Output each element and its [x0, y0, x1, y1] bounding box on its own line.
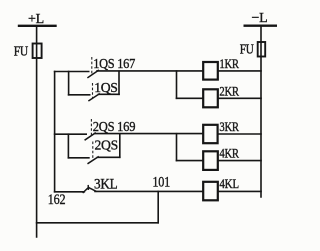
coil 4KL: [203, 182, 218, 201]
coil 2KR: [203, 89, 218, 107]
wire row3 right segment to coil 3KR: [95, 133, 204, 135]
fuse FU (right): [258, 42, 266, 57]
wire drop to coil 4KR: [176, 134, 178, 161]
wire 3KR to right rail: [218, 133, 261, 135]
fuse FU (left): [33, 44, 42, 59]
wire row1 right segment to coil 1KR: [97, 70, 203, 72]
svg-text:2QS: 2QS: [95, 138, 118, 153]
switch 1QS blade (contact 167 row): [88, 70, 98, 77]
wire 4KR to right rail: [218, 160, 261, 162]
wire row4 right segment: [98, 156, 120, 158]
wire row3 left segment: [55, 133, 87, 135]
left rail wire (from +L bar down): [36, 26, 38, 237]
svg-text:4KR: 4KR: [219, 145, 239, 160]
svg-text:101: 101: [152, 175, 170, 191]
wire row5 right segment to coil 4KL (node 101): [95, 190, 203, 192]
svg-text:1QS 167: 1QS 167: [93, 57, 135, 72]
svg-text:4KL: 4KL: [219, 176, 239, 191]
svg-text:FU: FU: [14, 43, 29, 58]
wire 2KR to right rail: [218, 97, 261, 99]
coil 4KR: [203, 151, 218, 170]
svg-text:FU: FU: [240, 42, 254, 57]
switch 1QS blade (lower branch): [89, 94, 99, 101]
svg-text:2KR: 2KR: [219, 84, 239, 99]
svg-text:3KR: 3KR: [219, 119, 239, 134]
wire junction drop to 2QS lower branch: [67, 134, 69, 158]
wire bottom return to left rail: [37, 222, 159, 224]
wire rejoin vertical of 1QS pair: [118, 71, 120, 94]
linkage dashed line 1QS row1: [91, 57, 93, 75]
-L supply bar: [245, 25, 277, 27]
wire junction drop to 1QS lower branch: [68, 72, 70, 95]
svg-text:162: 162: [48, 192, 66, 208]
linkage dashed line 2QS row4: [92, 142, 94, 161]
switch 3KL closing stroke: [89, 188, 96, 192]
switch 3KL tick: [87, 186, 89, 190]
wire row2 left segment: [69, 94, 90, 96]
svg-text:1KR: 1KR: [219, 56, 239, 71]
wire drop to coil 2KR: [176, 71, 178, 98]
switch 2QS blade (contact 169 row): [85, 133, 95, 140]
right rail wire (from -L bar down): [260, 26, 262, 197]
switch 2QS blade (lower branch): [88, 157, 98, 164]
wire node 101 drop: [157, 191, 159, 222]
svg-text:−L: −L: [252, 11, 268, 26]
svg-text:2QS 169: 2QS 169: [93, 120, 136, 135]
linkage dashed line 1QS row2: [92, 83, 94, 98]
+L supply bar: [19, 25, 56, 27]
wire row5 left segment (node 162): [55, 191, 85, 193]
svg-text:3KL: 3KL: [94, 176, 117, 192]
svg-text:1QS: 1QS: [94, 81, 117, 96]
wire 1KR to right rail: [218, 70, 261, 72]
svg-text:+L: +L: [28, 12, 44, 27]
wire 2KR feed segment: [177, 97, 204, 99]
coil 1KR: [203, 62, 218, 80]
coil 3KR: [203, 125, 217, 143]
wire row2 right segment: [99, 93, 120, 95]
switch 3KL blade: [83, 187, 88, 192]
node 162 vertical bus: [54, 72, 56, 192]
wire 4KL to right rail: [218, 190, 261, 192]
wire row4 left segment: [68, 157, 89, 159]
linkage dashed line 2QS row3: [90, 119, 92, 137]
wire rejoin vertical of 2QS pair: [119, 134, 121, 157]
wire 4KR feed segment: [177, 160, 204, 162]
wire row1 left segment: [55, 71, 89, 73]
